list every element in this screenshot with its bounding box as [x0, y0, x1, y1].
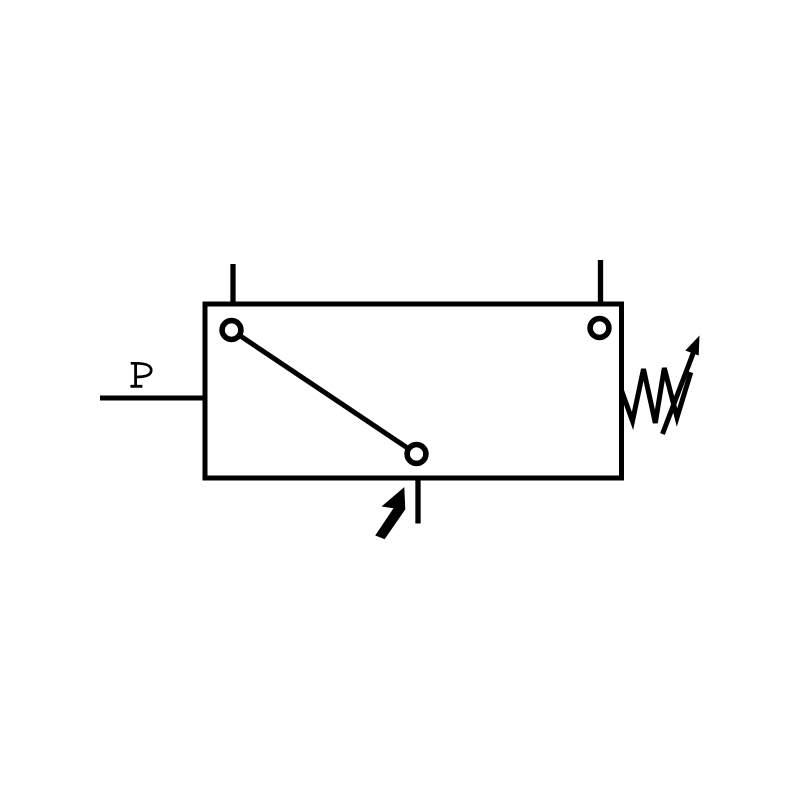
node: bottom wiper contact circle	[407, 445, 426, 464]
variable-resistor arrow shaft	[663, 347, 696, 434]
node: top-right contact circle	[590, 319, 609, 338]
wire: top-left terminal stub	[230, 264, 235, 303]
wire: top-right terminal stub	[598, 260, 603, 303]
label P (pressure input)	[130, 362, 151, 387]
wire: left input lead	[100, 396, 203, 401]
variable-resistor arrowhead	[685, 336, 699, 356]
lightning-bolt (electrical actuation mark)	[375, 487, 405, 539]
wiper arm	[242, 337, 407, 448]
pressure transducer body (box)	[205, 304, 622, 478]
wire: bottom terminal stub	[415, 479, 420, 524]
node: top-left contact circle	[222, 321, 241, 340]
resistor R (zigzag)	[622, 368, 691, 423]
